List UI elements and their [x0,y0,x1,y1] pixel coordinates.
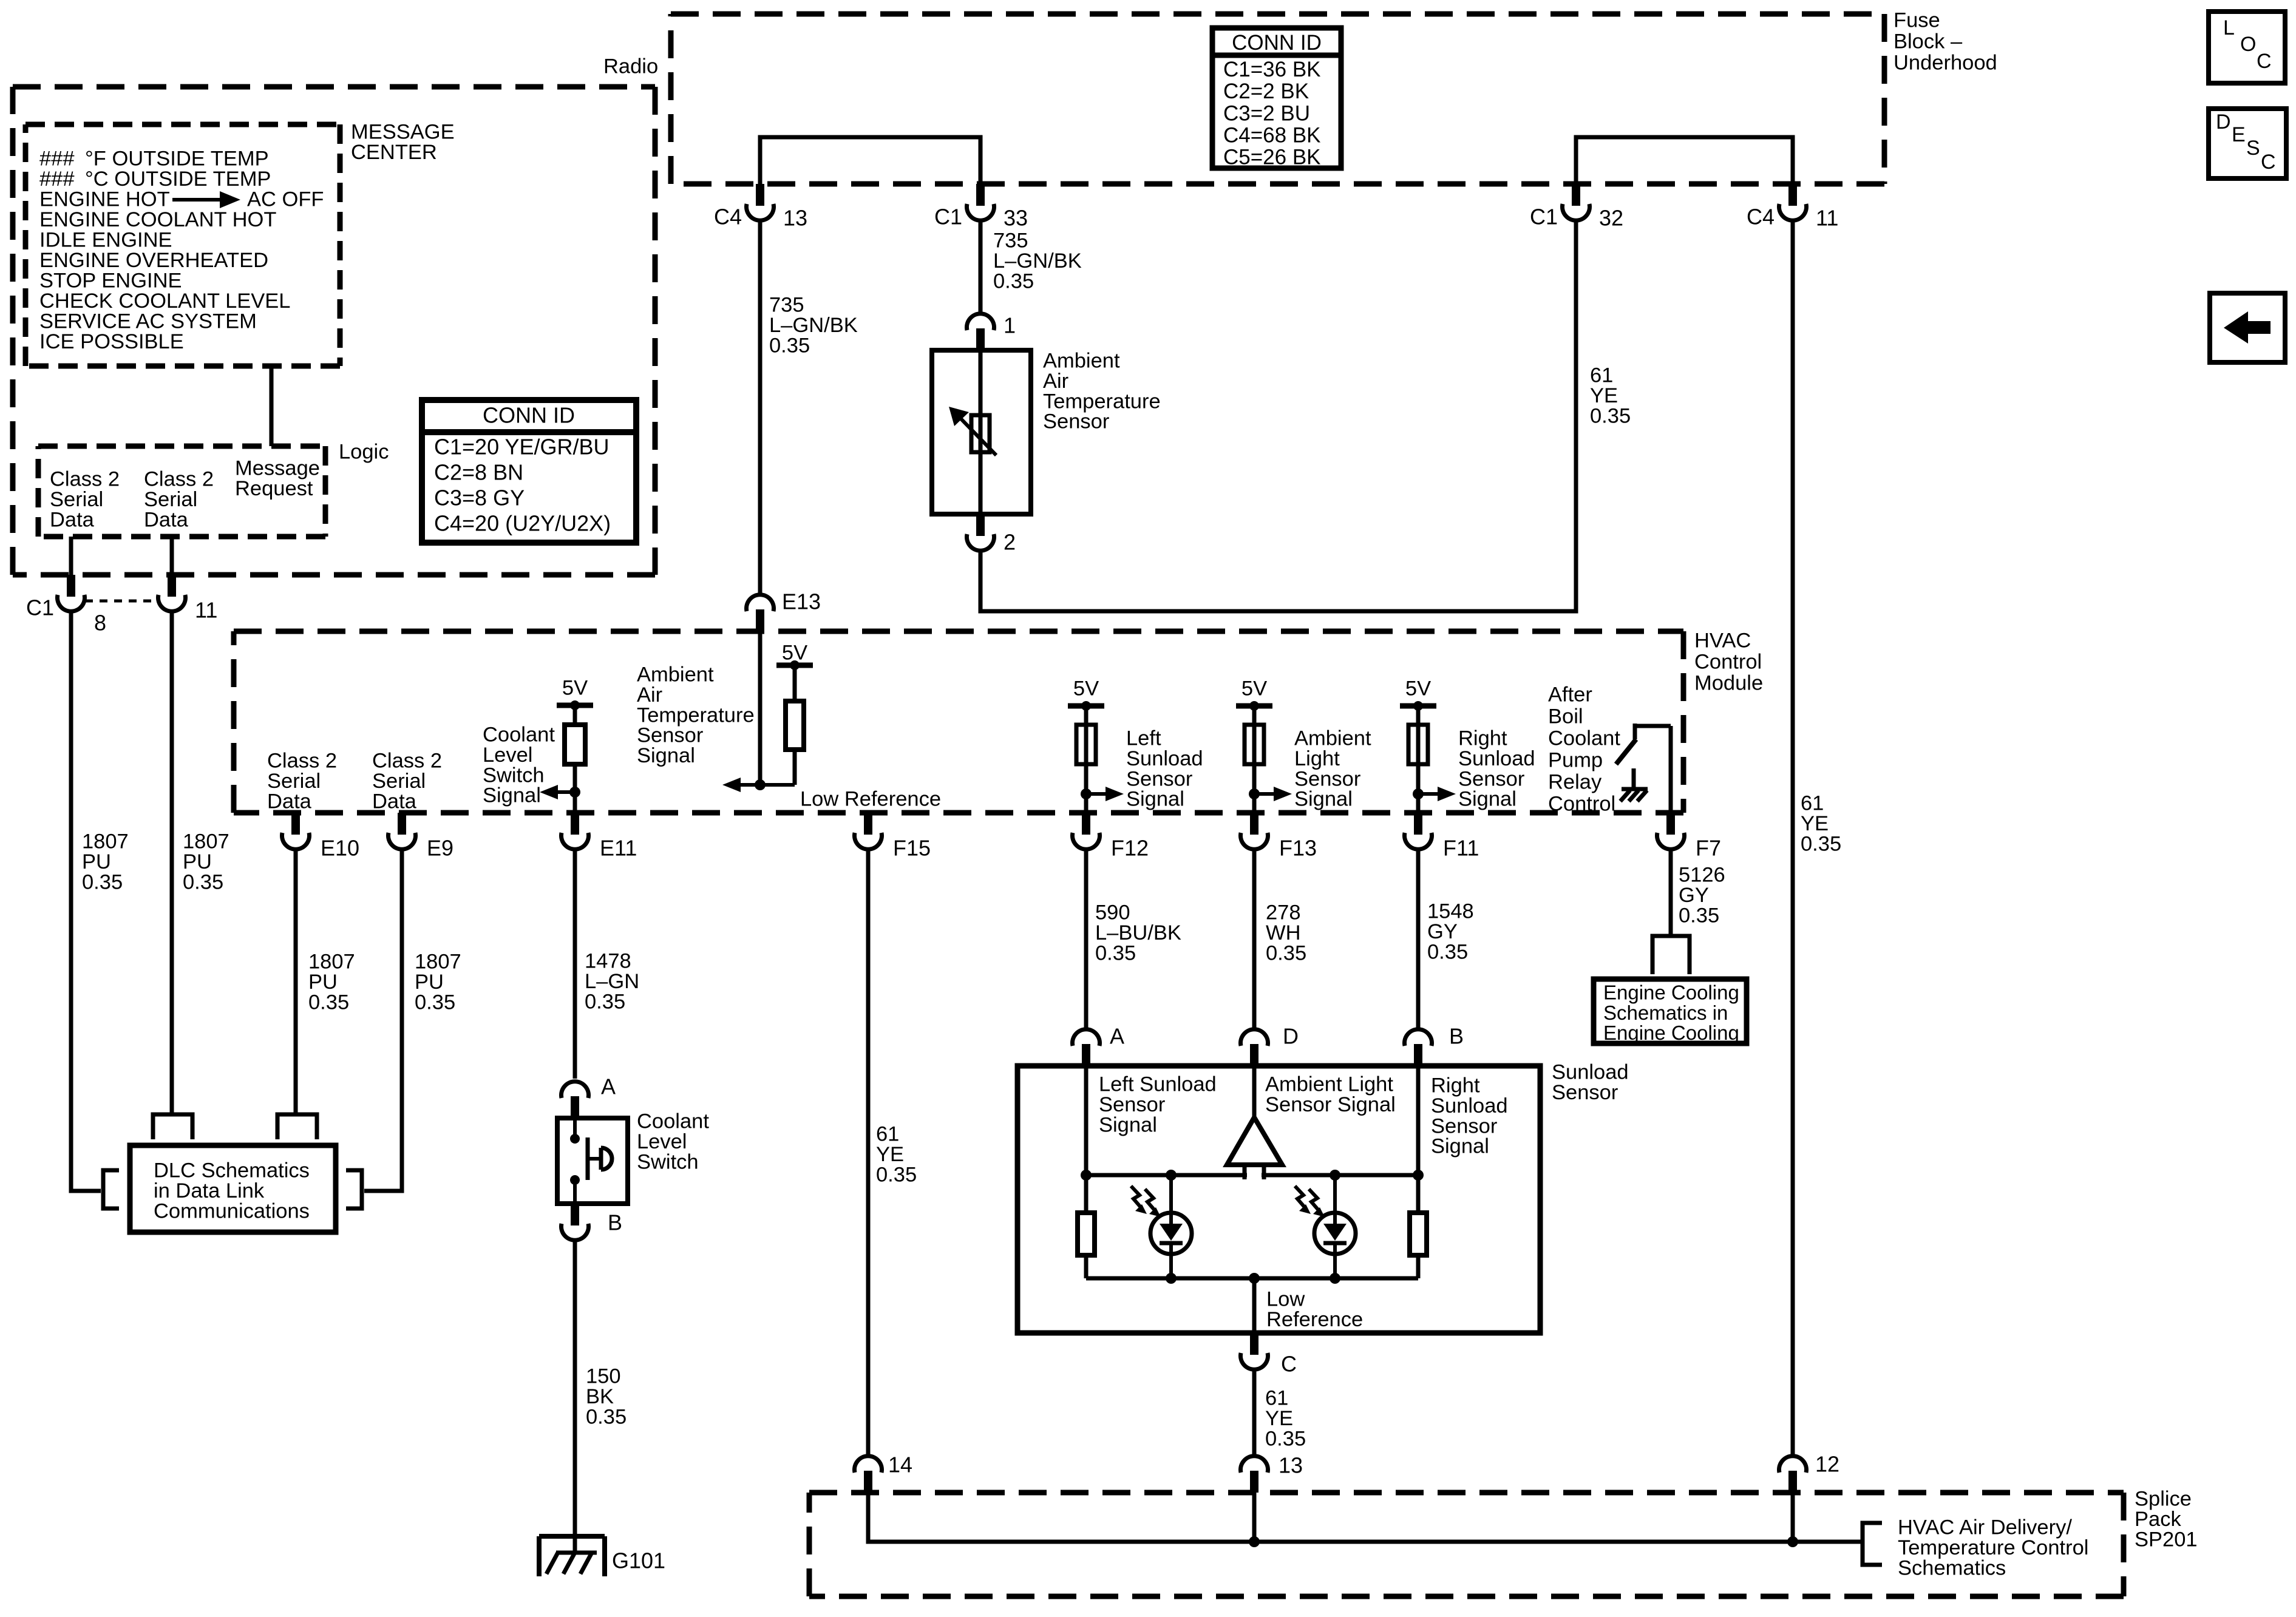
svg-text:A: A [601,1074,616,1099]
pull-up resistor (ambient air temp) [786,701,804,750]
right bias resistor [1416,1175,1421,1213]
svg-text:Sunload: Sunload [1431,1094,1508,1117]
svg-text:Message: Message [235,457,320,480]
svg-text:0.35: 0.35 [415,991,455,1014]
svg-text:Signal: Signal [1099,1113,1157,1136]
svg-text:C1=36 BK: C1=36 BK [1223,58,1321,81]
svg-text:Schematics in: Schematics in [1603,1002,1728,1024]
connector A (coolant level switch) [571,1096,579,1118]
svg-text:E10: E10 [321,836,359,861]
dotted connector grouping line C1 [85,600,158,603]
svg-text:2: 2 [1004,530,1016,555]
connector 14 (splice pack) [864,1471,872,1493]
svg-text:5V: 5V [1073,677,1099,700]
svg-text:L: L [2223,16,2235,39]
float lever [586,1137,590,1180]
svg-text:Left Sunload: Left Sunload [1099,1073,1217,1096]
svg-text:D: D [2216,110,2231,134]
svg-text:Control: Control [1694,651,1762,674]
svg-text:Radio: Radio [603,55,658,78]
svg-text:Signal: Signal [1458,788,1517,811]
svg-text:F13: F13 [1279,836,1317,861]
svg-text:1548: 1548 [1427,900,1474,923]
svg-text:STOP ENGINE: STOP ENGINE [39,269,182,293]
connector 11 (radio) [168,575,176,597]
svg-text:G101: G101 [612,1548,665,1573]
svg-text:Ambient: Ambient [637,663,714,686]
svg-text:Switch: Switch [637,1150,699,1173]
svg-text:Sensor: Sensor [1099,1093,1165,1116]
svg-text:C: C [2261,151,2276,174]
svg-text:YE: YE [1590,384,1618,407]
svg-text:0.35: 0.35 [1095,941,1136,964]
svg-text:61: 61 [1801,792,1824,815]
svg-text:0.35: 0.35 [876,1163,917,1186]
svg-text:278: 278 [1266,901,1301,924]
splice bus wire [868,1493,1863,1542]
wire 61 YE from C1 32 down to ambient sensor pin 2 [980,219,1576,611]
ground G101 [539,1534,605,1539]
DLC bracket (pin 11 wire) [153,1114,192,1139]
pull-up resistor (left sunload) [1084,706,1089,813]
svg-text:Logic: Logic [339,441,389,464]
svg-text:E11: E11 [600,836,637,861]
svg-text:Sunload: Sunload [1126,747,1203,770]
svg-text:CONN ID: CONN ID [1232,31,1322,55]
svg-text:F11: F11 [1443,836,1479,861]
svg-text:###: ### [39,168,75,191]
svg-text:Level: Level [637,1130,687,1153]
svg-text:GY: GY [1427,920,1458,943]
svg-text:Schematics: Schematics [1898,1556,2006,1579]
svg-text:150: 150 [586,1365,621,1388]
connector C1 33 (fuse block) [976,184,985,206]
svg-text:Sensor: Sensor [1043,410,1109,433]
DLC bracket (E10 wire) [277,1114,317,1139]
svg-text:C2=8 BN: C2=8 BN [434,460,523,485]
svg-text:735: 735 [769,294,804,317]
svg-text:Ambient Light: Ambient Light [1265,1073,1393,1096]
svg-text:Temperature: Temperature [1043,390,1161,413]
svg-text:F15: F15 [893,836,931,861]
svg-text:Engine Cooling: Engine Cooling [1603,981,1739,1003]
connector A (sunload sensor) [1082,1044,1090,1066]
svg-text:L–BU/BK: L–BU/BK [1095,921,1181,944]
svg-text:IDLE ENGINE: IDLE ENGINE [39,229,172,252]
svg-text:ENGINE OVERHEATED: ENGINE OVERHEATED [39,249,268,272]
right photodiode [1333,1175,1337,1213]
svg-text:33: 33 [1004,206,1028,231]
svg-text:YE: YE [1801,812,1829,835]
svg-text:F7: F7 [1696,836,1721,861]
svg-text:Sensor: Sensor [1458,767,1524,790]
svg-text:Air: Air [637,683,662,707]
svg-text:1807: 1807 [308,951,355,974]
svg-text:Class 2: Class 2 [267,750,337,773]
variable resistor diagonal arrow [960,418,996,455]
svg-text:1807: 1807 [183,830,229,853]
svg-text:Data: Data [50,508,95,531]
svg-text:Temperature Control: Temperature Control [1898,1536,2088,1559]
svg-text:C4: C4 [1747,205,1775,229]
svg-text:Signal: Signal [1431,1135,1489,1158]
wire 735 L-GN/BK from C1 33 to sensor pin 1 [979,219,983,315]
svg-text:13: 13 [1279,1453,1303,1478]
sunload top rail [1086,1173,1418,1178]
svg-text:C: C [1281,1352,1297,1377]
svg-text:0.35: 0.35 [183,870,223,893]
amplifier buffer triangle [1227,1117,1282,1165]
svg-text:11: 11 [1816,206,1838,231]
svg-text:C1: C1 [934,205,962,229]
svg-text:1478: 1478 [585,950,631,973]
pull-up resistor (coolant level switch) [565,725,585,764]
svg-text:Sensor: Sensor [1126,767,1192,790]
HVAC Control Module dashed box [234,629,1683,634]
sunload B internal wire [1416,1066,1421,1175]
svg-text:Block –: Block – [1894,30,1963,53]
svg-text:Air: Air [1043,370,1068,393]
connector E11 (HVAC bottom) [571,813,579,835]
wire message center to logic [270,366,274,446]
svg-text:Sensor: Sensor [1294,767,1360,790]
wire 61 YE from C4 11 down to splice 12 [1791,219,1795,1456]
connector E10 (HVAC bottom) [291,813,300,835]
svg-text:B: B [608,1210,622,1235]
svg-text:L–GN/BK: L–GN/BK [769,314,858,337]
connector D (sunload sensor) [1250,1044,1258,1066]
svg-text:B: B [1449,1024,1464,1049]
svg-text:5126: 5126 [1679,864,1725,887]
svg-text:in Data Link: in Data Link [154,1179,265,1202]
svg-text:PU: PU [415,971,444,994]
svg-text:1807: 1807 [82,830,129,853]
wire class 2 serial data (logic to pin 11) [170,537,174,575]
connector F13 (HVAC bottom) [1250,813,1258,835]
svg-text:Control: Control [1548,793,1615,816]
wire 1478 L-GN (E11 to coolant level switch) [573,850,577,1079]
DLC right bracket [346,1170,362,1209]
svg-text:12: 12 [1815,1452,1839,1477]
svg-text:Serial: Serial [50,488,103,511]
svg-text:PU: PU [82,850,111,873]
svg-text:C: C [2257,50,2272,73]
svg-text:1: 1 [1004,313,1016,338]
signal node and arrow (Ambient Air Temperature Sensor Signal) [760,783,795,787]
svg-text:WH: WH [1266,921,1300,944]
svg-text:Communications: Communications [154,1199,310,1222]
Radio module dashed box [13,84,655,90]
svg-text:ENGINE HOT: ENGINE HOT [39,188,170,211]
svg-text:Left: Left [1126,727,1161,750]
svg-text:F12: F12 [1111,836,1149,861]
svg-text:0.35: 0.35 [1679,904,1719,927]
connector 12 (splice pack) [1788,1471,1797,1493]
svg-text:0.35: 0.35 [1265,1427,1306,1450]
connector 13 (splice pack) [1250,1471,1258,1493]
svg-text:CHECK COOLANT LEVEL: CHECK COOLANT LEVEL [39,290,291,313]
svg-text:YE: YE [1265,1407,1293,1430]
HVAC air delivery bracket [1863,1523,1882,1565]
ambient air temperature sensor box [932,350,1031,514]
svg-text:32: 32 [1599,206,1623,231]
left bias resistor [1084,1175,1089,1213]
svg-text:Light: Light [1294,747,1340,770]
svg-text:0.35: 0.35 [586,1405,627,1428]
svg-text:GY: GY [1679,884,1709,907]
Fuse Block - Underhood dashed box [671,12,1884,17]
svg-text:C4: C4 [714,205,742,229]
wire 735 L-GN/BK from C4 13 to E13 [758,219,763,597]
svg-text:°C OUTSIDE TEMP: °C OUTSIDE TEMP [85,168,271,191]
svg-text:YE: YE [876,1143,904,1166]
svg-text:S: S [2246,137,2260,160]
Message Center dashed box [25,122,340,127]
svg-text:DLC Schematics: DLC Schematics [154,1159,310,1182]
wire 61 YE (sunload C to splice 13) [1252,1368,1257,1456]
svg-text:E: E [2232,123,2246,146]
connector F12 (HVAC bottom) [1082,813,1090,835]
connector F15 (HVAC bottom) [864,813,872,835]
svg-text:MESSAGE: MESSAGE [351,121,455,144]
svg-text:Data: Data [372,790,417,813]
wire 1807 PU (E10 to DLC) [294,850,298,1114]
svg-text:Relay: Relay [1548,771,1602,794]
connector E9 (HVAC bottom) [398,813,406,835]
svg-text:C2=2 BK: C2=2 BK [1223,80,1309,103]
svg-text:735: 735 [993,229,1028,253]
connector B (sunload sensor) [1414,1044,1422,1066]
wire 1807 PU (E9 to DLC) [364,850,402,1191]
connector C4 13 (fuse block) [756,184,764,206]
svg-text:Low: Low [1266,1288,1305,1311]
connector E13 (HVAC top) [756,609,764,631]
svg-text:Sensor: Sensor [1431,1114,1497,1137]
fuse block CONN ID table [1212,28,1341,168]
svg-text:Signal: Signal [637,744,695,767]
thermistor wire through sensor [979,350,983,514]
svg-text:590: 590 [1095,901,1130,924]
DLC left bracket [103,1170,119,1209]
svg-text:E9: E9 [427,836,453,861]
sunload D wire to amplifier [1252,1066,1257,1120]
svg-text:AC OFF: AC OFF [247,188,324,211]
svg-text:Pump: Pump [1548,749,1603,772]
svg-text:SERVICE AC SYSTEM: SERVICE AC SYSTEM [39,310,257,333]
svg-text:Right: Right [1458,727,1507,750]
svg-text:SP201: SP201 [2135,1528,2198,1551]
pull-up resistor (right sunload) [1416,706,1421,813]
signal node and arrow (ambient light sensor signal) [1254,792,1281,796]
svg-text:Request: Request [235,477,313,500]
coolant level switch contacts [573,1118,577,1139]
svg-text:Signal: Signal [1294,788,1353,811]
connector 1 (ambient air temperature sensor) [976,328,985,350]
svg-text:61: 61 [1265,1387,1288,1410]
svg-text:ENGINE COOLANT HOT: ENGINE COOLANT HOT [39,208,276,231]
arrow ENGINE HOT to AC OFF [172,198,223,202]
coolant level switch signal node + arrow [551,790,575,794]
DLC Schematics box [130,1145,336,1232]
svg-text:14: 14 [888,1453,912,1477]
svg-text:PU: PU [183,850,212,873]
svg-text:L–GN: L–GN [585,970,639,993]
svg-text:Sensor: Sensor [1552,1081,1618,1104]
svg-text:0.35: 0.35 [769,334,810,357]
svg-text:Coolant: Coolant [483,724,555,747]
fuse block internal bridge C1/32 to C4/11 [1576,137,1793,184]
svg-text:HVAC: HVAC [1694,629,1751,653]
svg-text:Module: Module [1694,672,1763,695]
svg-text:Sunload: Sunload [1552,1061,1629,1084]
sunload bottom rail [1086,1276,1418,1281]
svg-text:8: 8 [94,611,106,636]
svg-text:Pack: Pack [2135,1508,2181,1531]
connector F11 (HVAC bottom) [1414,813,1422,835]
svg-text:Reference: Reference [1266,1308,1363,1331]
svg-text:ICE POSSIBLE: ICE POSSIBLE [39,330,184,353]
wire 5126 GY (F7 to engine cooling) [1669,850,1673,936]
svg-text:61: 61 [876,1123,899,1146]
svg-text:Sunload: Sunload [1458,747,1535,770]
Logic dashed box [38,444,325,449]
svg-text:C4=20 (U2Y/U2X): C4=20 (U2Y/U2X) [434,511,611,536]
svg-text:Ambient: Ambient [1294,727,1371,750]
svg-text:C1: C1 [26,595,54,620]
back arrow nav box [2210,293,2285,362]
wire class 2 serial data (logic to C1 pin 8) [69,537,73,575]
svg-text:5V: 5V [1405,677,1431,700]
svg-text:13: 13 [783,206,807,231]
chassis ground (relay control) [1632,768,1636,789]
variable resistor element [971,415,990,452]
svg-text:Low Reference: Low Reference [800,788,941,811]
svg-text:0.35: 0.35 [1427,940,1468,963]
svg-text:D: D [1283,1024,1299,1049]
radio CONN ID table [422,400,636,543]
wire 1548 GY (F11 to sunload B) [1416,850,1421,1031]
svg-text:C3=2 BU: C3=2 BU [1223,101,1310,125]
svg-text:1807: 1807 [415,951,461,974]
svg-text:Splice: Splice [2135,1488,2192,1511]
svg-text:Ambient: Ambient [1043,350,1120,373]
svg-text:0.35: 0.35 [585,990,625,1013]
svg-text:Switch: Switch [483,764,545,787]
svg-text:Coolant: Coolant [1548,727,1620,750]
svg-text:E13: E13 [782,589,821,614]
svg-text:Underhood: Underhood [1894,52,1997,75]
svg-text:L–GN/BK: L–GN/BK [993,249,1082,273]
svg-text:0.35: 0.35 [1590,404,1631,427]
svg-text:0.35: 0.35 [308,991,349,1014]
connector C4 11 (fuse block) [1788,184,1797,206]
svg-text:Data: Data [144,508,189,531]
svg-text:After: After [1548,683,1592,707]
wire 278 WH (F13 to sunload D) [1252,850,1257,1031]
svg-text:0.35: 0.35 [82,870,123,893]
svg-text:Temperature: Temperature [637,703,755,727]
wire 1807 PU (pin 11 to DLC) [170,613,174,1114]
svg-text:Boil: Boil [1548,705,1583,728]
LOC nav box [2209,12,2285,83]
svg-text:C3=8 GY: C3=8 GY [434,486,525,510]
svg-text:A: A [1110,1024,1124,1049]
engine cooling bracket [1652,936,1690,974]
svg-text:CENTER: CENTER [351,141,437,164]
svg-text:Level: Level [483,744,532,767]
svg-text:0.35: 0.35 [993,269,1034,293]
svg-text:11: 11 [195,598,217,623]
svg-text:°F OUTSIDE TEMP: °F OUTSIDE TEMP [85,147,269,171]
svg-text:HVAC Air Delivery/: HVAC Air Delivery/ [1898,1516,2072,1539]
svg-text:Signal: Signal [483,784,541,807]
svg-text:Class 2: Class 2 [372,750,442,773]
Sunload Sensor box [1017,1066,1540,1333]
DESC nav box [2209,109,2286,178]
svg-text:Class 2: Class 2 [144,468,214,491]
wire 1807 PU (pin 8 to DLC) [71,613,101,1191]
svg-text:C1: C1 [1530,205,1558,229]
svg-text:###: ### [39,147,75,171]
svg-text:0.35: 0.35 [1266,941,1306,964]
svg-text:CONN ID: CONN ID [483,403,575,428]
signal node and arrow (left sunload sensor signal) [1086,792,1113,796]
connector C (sunload sensor) [1250,1333,1258,1355]
connector C1 8 (radio) [67,575,75,597]
sunload A internal wire [1084,1066,1089,1175]
svg-text:C5=26 BK: C5=26 BK [1223,146,1321,169]
svg-text:Signal: Signal [1126,788,1184,811]
connector 2 (ambient air temperature sensor) [976,514,985,536]
low reference wire to C [1252,1278,1257,1333]
coolant level switch box [557,1118,628,1204]
wire 61 YE (F15 to splice 14) [866,850,871,1456]
svg-text:PU: PU [308,971,338,994]
svg-text:Engine Cooling: Engine Cooling [1603,1022,1739,1044]
left photodiode [1169,1175,1173,1213]
svg-text:61: 61 [1590,364,1613,387]
svg-text:5V: 5V [1241,677,1267,700]
Engine Cooling Schematics box [1594,979,1747,1043]
E13 internal wire to signal node [758,631,763,785]
connector C1 32 (fuse block) [1572,184,1580,206]
svg-text:C1=20 YE/GR/BU: C1=20 YE/GR/BU [434,435,609,459]
svg-text:Data: Data [267,790,312,813]
connector F7 (HVAC bottom) [1666,813,1675,835]
svg-text:Class 2: Class 2 [50,468,120,491]
svg-text:Serial: Serial [144,488,197,511]
after boil coolant pump relay switch [1635,724,1671,728]
signal node and arrow (right sunload sensor signal) [1418,792,1445,796]
svg-text:C4=68 BK: C4=68 BK [1223,124,1321,147]
svg-text:Right: Right [1431,1074,1480,1097]
fuse block internal bridge C4/13 to C1/33 [760,137,980,184]
svg-text:5V: 5V [562,677,588,700]
svg-text:O: O [2240,33,2256,56]
svg-text:Sensor: Sensor [637,724,703,747]
connector B (coolant level switch) [571,1204,579,1225]
svg-text:BK: BK [586,1385,614,1408]
svg-text:Serial: Serial [267,770,321,793]
svg-text:Serial: Serial [372,770,426,793]
svg-text:Fuse: Fuse [1894,9,1940,32]
pull-up resistor (ambient light) [1252,706,1257,813]
wire 150 BK to G101 [573,1238,577,1553]
svg-text:Sensor Signal: Sensor Signal [1265,1093,1396,1116]
Splice Pack SP201 dashed box [809,1490,2124,1496]
svg-text:0.35: 0.35 [1801,832,1841,855]
wire 590 L-BU/BK (F12 to sunload A) [1084,850,1089,1031]
